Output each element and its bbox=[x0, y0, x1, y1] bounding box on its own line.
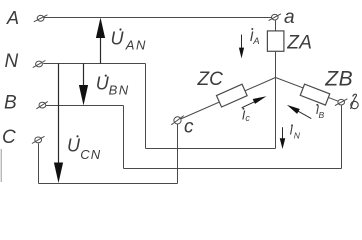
svg-text:U: U bbox=[67, 135, 81, 155]
label U_AN bbox=[111, 28, 147, 52]
wire neutral: star node down bbox=[275, 78, 277, 149]
terminal b bbox=[335, 99, 347, 106]
current arrow I_B bbox=[287, 105, 311, 119]
label U_BN bbox=[96, 74, 130, 98]
svg-text:B: B bbox=[4, 92, 17, 113]
svg-text:CN: CN bbox=[80, 147, 101, 162]
voltage arrow U_CN bbox=[54, 64, 63, 184]
wire ZA to star node bbox=[275, 51, 277, 77]
svg-text:ZC: ZC bbox=[197, 69, 224, 90]
svg-text:A: A bbox=[6, 8, 19, 28]
terminal a bbox=[269, 14, 281, 21]
label I_N bbox=[290, 123, 301, 140]
wire B drop bbox=[123, 106, 125, 169]
label I_A bbox=[250, 28, 260, 47]
impedance ZA bbox=[267, 31, 284, 51]
impedance ZC bbox=[216, 84, 247, 107]
wire B bottom run bbox=[124, 168, 342, 170]
current arrow I_A bbox=[239, 35, 244, 59]
current arrow I_N bbox=[280, 127, 286, 149]
svg-text:ZA: ZA bbox=[286, 32, 312, 53]
terminal N bbox=[33, 61, 46, 68]
wire phase A rail bbox=[44, 17, 271, 19]
svg-text:U: U bbox=[111, 29, 125, 49]
voltage arrow U_AN bbox=[96, 18, 105, 64]
wire C bottom run bbox=[39, 183, 178, 185]
wire phase B rail bbox=[46, 105, 124, 107]
svg-text:N: N bbox=[5, 51, 19, 72]
terminal C bbox=[32, 136, 45, 143]
voltage arrow U_BN bbox=[79, 64, 88, 106]
svg-text:AN: AN bbox=[125, 38, 147, 53]
scan artifact left edge bbox=[0, 149, 2, 182]
impedance ZB bbox=[300, 84, 330, 105]
wire c-terminal to star node (phase C branch) bbox=[181, 78, 276, 120]
wire neutral horizontal run bbox=[146, 148, 276, 150]
wire a-terminal to ZA bbox=[275, 21, 277, 32]
svg-text:ZB: ZB bbox=[324, 68, 353, 91]
wire star node to b-terminal (phase B branch) bbox=[276, 78, 339, 102]
svg-text:B: B bbox=[319, 110, 325, 120]
svg-text:N: N bbox=[294, 131, 301, 141]
wire B riser to terminal b bbox=[341, 106, 343, 169]
terminal B bbox=[36, 102, 47, 109]
svg-text:C: C bbox=[2, 127, 16, 148]
wire C drop bbox=[38, 143, 40, 183]
terminal A bbox=[34, 15, 48, 22]
wire phase N rail bbox=[43, 63, 145, 65]
svg-text:A: A bbox=[252, 36, 259, 47]
label I_c bbox=[242, 107, 251, 123]
label U_CN bbox=[67, 135, 101, 162]
label I_B bbox=[316, 103, 325, 120]
svg-text:BN: BN bbox=[109, 82, 130, 97]
wire neutral riser to N rail bbox=[145, 64, 147, 149]
terminal c bbox=[171, 116, 184, 125]
svg-text:c: c bbox=[184, 116, 194, 137]
label terminal b (cursive ve) bbox=[351, 94, 359, 109]
svg-text:c: c bbox=[245, 113, 250, 123]
svg-text:a: a bbox=[284, 7, 295, 28]
wire C riser to terminal c bbox=[177, 124, 179, 184]
current arrow I_c bbox=[242, 96, 267, 108]
